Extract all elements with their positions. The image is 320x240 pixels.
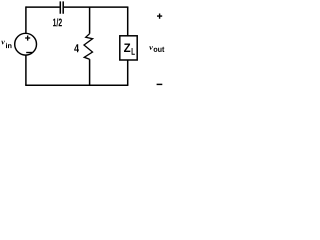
voltage source plus sign: [25, 36, 30, 41]
load ZL top lead: [127, 7, 129, 36]
resistor R1 zigzag: [84, 34, 93, 60]
load ZL label letter Z: [124, 44, 130, 53]
voltage source minus sign: [26, 52, 32, 54]
wire left branch lower: [25, 55, 27, 85]
resistor R1 bottom lead: [89, 59, 91, 85]
resistor R1 value label 4: [74, 44, 79, 52]
wire bottom rail: [25, 84, 128, 86]
load ZL label subscript L: [132, 48, 135, 55]
capacitor C1 plates: [60, 1, 63, 13]
voltage source V1 circle: [15, 33, 37, 55]
wire top rail right segment: [64, 6, 128, 8]
label vin letter v: [1, 41, 5, 45]
label vout subscript out: [154, 47, 165, 52]
wire left branch upper: [25, 6, 27, 33]
load ZL box: [120, 36, 137, 60]
output plus terminal label: [157, 14, 162, 19]
label vout letter v: [149, 46, 153, 50]
load ZL bottom lead: [127, 60, 129, 85]
label vin subscript in: [6, 43, 12, 48]
capacitor C1 value label 1/2: [53, 18, 62, 26]
output minus terminal label: [157, 83, 163, 85]
resistor R1 top lead: [89, 7, 91, 34]
wire top rail left segment: [26, 6, 60, 8]
